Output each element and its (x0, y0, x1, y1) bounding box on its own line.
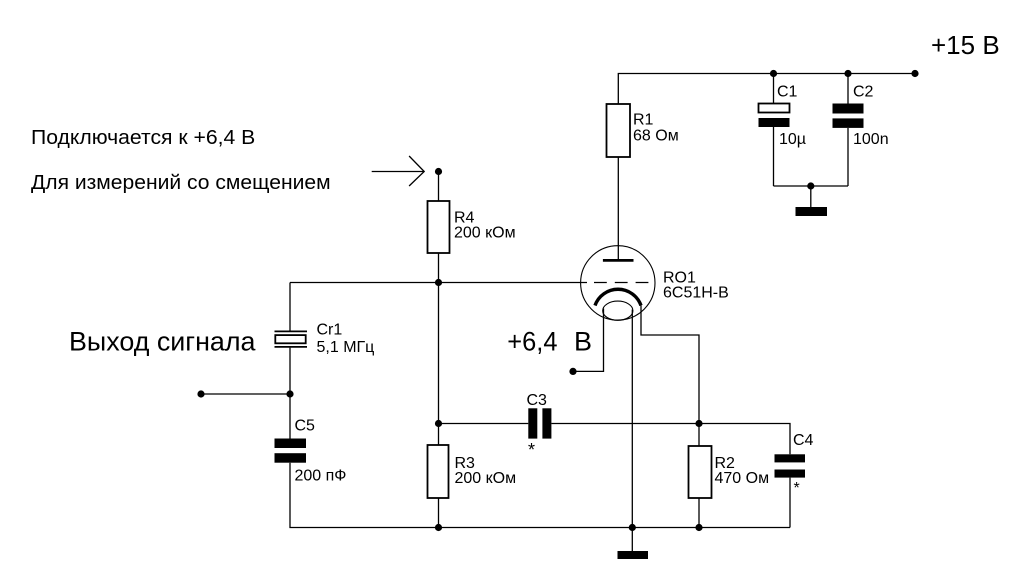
svg-text:5,1 МГц: 5,1 МГц (317, 339, 375, 356)
svg-text:*: * (794, 480, 800, 497)
svg-text:68 Ом: 68 Ом (633, 128, 679, 145)
svg-text:Для измерений со смещением: Для измерений со смещением (31, 171, 331, 194)
svg-text:Подключается к +6,4 В: Подключается к +6,4 В (31, 126, 255, 149)
svg-text:470 Ом: 470 Ом (715, 470, 770, 487)
svg-text:C4: C4 (793, 432, 814, 449)
svg-text:*: * (528, 440, 535, 460)
svg-text:100n: 100n (853, 131, 889, 148)
svg-text:Cr1: Cr1 (317, 322, 343, 339)
svg-text:6С51Н-В: 6С51Н-В (663, 285, 729, 302)
svg-text:C2: C2 (853, 84, 874, 101)
svg-text:C5: C5 (295, 418, 316, 435)
svg-text:+15 В: +15 В (931, 30, 1000, 60)
svg-text:200 кОм: 200 кОм (455, 470, 517, 487)
svg-text:В: В (574, 327, 592, 357)
svg-text:R1: R1 (633, 112, 654, 129)
svg-text:C3: C3 (527, 392, 548, 409)
svg-text:200 пФ: 200 пФ (295, 468, 347, 485)
svg-text:+6,4: +6,4 (507, 327, 557, 357)
svg-text:200 кОм: 200 кОм (454, 225, 516, 242)
svg-text:10µ: 10µ (779, 131, 806, 148)
svg-text:C1: C1 (777, 84, 798, 101)
svg-text:Выход сигнала: Выход сигнала (69, 327, 256, 357)
